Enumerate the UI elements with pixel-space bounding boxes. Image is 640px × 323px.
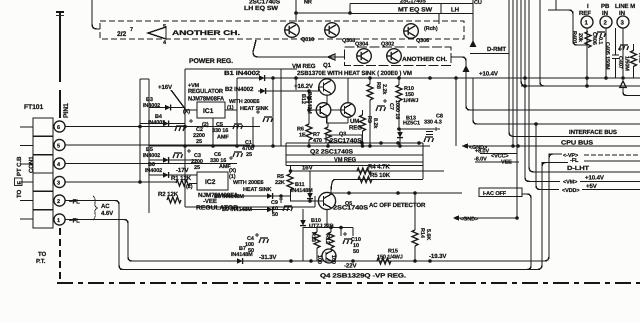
wire C1 column	[252, 117, 254, 146]
svg-text:LH: LH	[451, 7, 459, 14]
wire R5 rail	[331, 180, 423, 194]
resistor R10	[396, 85, 402, 101]
pin 4	[54, 158, 65, 169]
svg-text:MT EQ SW: MT EQ SW	[398, 7, 432, 14]
svg-text:I: I	[587, 3, 589, 10]
svg-text:Q4 2SB1329Q -VP REG.: Q4 2SB1329Q -VP REG.	[320, 273, 407, 280]
svg-text:5.6K: 5.6K	[425, 229, 431, 240]
svg-text:3: 3	[57, 181, 60, 187]
wire pin3 down	[622, 28, 624, 78]
svg-text:3: 3	[621, 20, 625, 27]
ground C4	[259, 238, 269, 243]
svg-text:5: 5	[57, 144, 60, 150]
ground C9	[283, 206, 293, 211]
svg-text:+16V: +16V	[158, 84, 173, 91]
svg-text:C407: C407	[617, 56, 623, 69]
svg-text:B2 IN4002: B2 IN4002	[225, 86, 254, 93]
wire: vertical into dashed another-ch box	[92, 0, 100, 29]
svg-text:-19.3V: -19.3V	[429, 253, 447, 260]
svg-text:HEAT SINK: HEAT SINK	[243, 187, 271, 193]
svg-text:Q2 2SC1740S: Q2 2SC1740S	[310, 149, 353, 156]
svg-text:1E: 1E	[299, 133, 306, 139]
svg-text:+10.4V: +10.4V	[585, 175, 605, 182]
resistor R5b 22K	[287, 174, 293, 190]
svg-text:2.2k: 2.2k	[381, 84, 387, 95]
ground C5	[233, 124, 243, 129]
solid box ANOTHER CH (lower)	[345, 47, 452, 66]
svg-text:TO: TO	[38, 251, 47, 258]
wire VDD rail right	[582, 189, 640, 191]
svg-text:R4 4.7K: R4 4.7K	[368, 164, 390, 171]
svg-text:1/50M: 1/50M	[624, 56, 630, 71]
svg-text:R14: R14	[419, 228, 425, 239]
wire x281 vertical	[280, 69, 282, 146]
svg-text:Q1: Q1	[323, 62, 332, 69]
wire -VP riser from bottom rail	[130, 154, 562, 261]
wire GND2	[459, 217, 517, 219]
svg-text:R9: R9	[366, 116, 372, 123]
transistor Q5	[318, 192, 335, 209]
ground C3	[173, 153, 183, 158]
svg-text:HZ5C1: HZ5C1	[403, 121, 420, 127]
svg-text:4.6V: 4.6V	[101, 210, 114, 217]
resistor R6	[306, 124, 312, 140]
svg-text:C405 150M: C405 150M	[604, 42, 610, 70]
wire VM rail right	[580, 181, 640, 183]
wire pin5 line	[65, 144, 250, 146]
capacitor C405	[612, 54, 619, 56]
resistor R14	[412, 230, 418, 246]
transistor Q1	[319, 79, 335, 95]
svg-text:AC OFF DETECTOR: AC OFF DETECTOR	[369, 202, 426, 209]
connector stubs left	[20, 127, 33, 219]
svg-text:Q306: Q306	[416, 38, 429, 44]
transistor Q306	[404, 24, 419, 39]
transistor Q3b pair	[341, 103, 356, 118]
svg-text:1/4WJ: 1/4WJ	[403, 98, 418, 104]
svg-text:B8 IN4148M: B8 IN4148M	[214, 194, 244, 200]
capacitor C1	[256, 110, 260, 114]
svg-text:FT101: FT101	[24, 104, 43, 111]
svg-text:IC2: IC2	[205, 179, 216, 186]
transistor Q302	[387, 49, 402, 64]
pin 3	[54, 176, 65, 187]
svg-text:20k: 20k	[577, 33, 583, 43]
wire 16V rail R4	[291, 170, 445, 172]
svg-text:4: 4	[57, 162, 61, 168]
ground C1	[263, 117, 273, 122]
ground C2	[175, 126, 185, 131]
label GND 2	[453, 215, 459, 221]
svg-text:150 1/4WJ: 150 1/4WJ	[377, 255, 403, 261]
svg-text:R13: R13	[310, 232, 316, 242]
bus vertical x517 down to GND2 wire	[516, 0, 518, 218]
capacitor C10	[343, 239, 353, 244]
wire center verticals	[237, 78, 296, 146]
IC1 regulator	[197, 102, 225, 118]
svg-text:22K: 22K	[275, 180, 285, 186]
boxed row 2SC1740S small	[326, 135, 362, 143]
wire x473 feed to y124	[473, 78, 640, 124]
svg-text:+10.4V: +10.4V	[479, 71, 499, 78]
svg-text:-31.3V: -31.3V	[259, 254, 277, 261]
transistor Q4	[322, 249, 336, 263]
svg-text:<VDD>: <VDD>	[562, 188, 580, 194]
wire Q3b collector up to rail	[347, 78, 349, 103]
arrow up on MT box feed	[470, 40, 477, 47]
bus vertical x521	[521, 0, 640, 86]
svg-text:B12: B12	[300, 94, 306, 104]
wire VEE net	[475, 161, 519, 163]
svg-text:2/2: 2/2	[117, 31, 126, 38]
svg-text:1: 1	[585, 20, 589, 27]
dashed box ANOTHER CH (upper)	[100, 21, 464, 39]
wire: top stub tick	[56, 11, 64, 13]
wire verticals detector	[303, 209, 353, 261]
wire pin2 down	[605, 28, 607, 78]
capacitor C3	[187, 149, 191, 153]
svg-text:POWER REG.: POWER REG.	[189, 58, 233, 65]
svg-text:AC: AC	[101, 203, 110, 210]
svg-text:2SB1370E WITH HEAT SINK ( 200: 2SB1370E WITH HEAT SINK ( 200E0 ) VM	[297, 70, 412, 77]
wire: y13 to MT EQ SW box	[296, 12, 350, 14]
svg-text:PIN1: PIN1	[63, 103, 70, 118]
pin 2	[54, 195, 65, 206]
power reg box top	[185, 68, 297, 70]
svg-text:R401: R401	[571, 31, 577, 44]
svg-text:330 4.3: 330 4.3	[424, 120, 442, 126]
wire feed from top	[555, 0, 557, 10]
svg-text:2: 2	[57, 199, 60, 205]
resistor R401	[585, 32, 591, 48]
brace AC 4.6V	[93, 196, 98, 220]
wire pin1 down	[586, 28, 588, 86]
svg-text:REG: REG	[349, 125, 362, 132]
wire pin2 FL	[65, 200, 115, 202]
wire Q3 pair emitters	[327, 117, 348, 128]
wire Q1 emitter down to Q3	[326, 95, 328, 104]
svg-text:Q302: Q302	[381, 42, 394, 48]
arrow up at x620	[620, 81, 626, 88]
svg-text:25: 25	[196, 139, 202, 145]
resistor R12	[328, 232, 334, 248]
resistor R7	[325, 127, 331, 143]
svg-text:+16.2V: +16.2V	[294, 83, 314, 90]
wire -FL riser from bottom rail	[120, 163, 568, 270]
svg-text:8.2k: 8.2k	[372, 118, 378, 129]
wire from VM arrow down and right y110	[466, 78, 640, 110]
box I-AC OFF	[479, 188, 522, 197]
pin 5	[54, 139, 65, 150]
capacitor C2	[189, 119, 193, 123]
bus vertical x525	[525, 0, 560, 182]
wire: Q310 collector to top	[295, 0, 297, 22]
wire dash-dot bottom rail	[57, 282, 640, 284]
svg-text:2SC1740S: 2SC1740S	[333, 205, 368, 212]
svg-text:I-AC OFF: I-AC OFF	[483, 191, 507, 197]
svg-text:P.T.: P.T.	[36, 258, 46, 265]
svg-text:(Rch): (Rch)	[424, 26, 438, 32]
wire dashed below connector	[59, 228, 61, 281]
svg-text:2: 2	[604, 20, 608, 27]
wire diagonal into IC1	[171, 90, 197, 110]
svg-text:NR: NR	[304, 0, 312, 6]
wire rail y86	[521, 85, 640, 87]
svg-text:LH EQ SW: LH EQ SW	[244, 5, 278, 12]
bus vertical x509 to INTERFACE BUS	[509, 0, 640, 137]
wire y90 rail	[281, 90, 319, 92]
resistor R9	[360, 115, 366, 131]
wire: Q306 to MT box	[438, 14, 440, 25]
ground C8	[424, 137, 434, 142]
wire pin3 line	[65, 181, 176, 183]
wire GND net	[462, 145, 640, 147]
svg-text:25: 25	[194, 165, 200, 171]
svg-text:1: 1	[57, 218, 60, 224]
wire y227	[303, 227, 353, 229]
op-amp triangle (another channel)	[148, 27, 166, 39]
wire Q5 base rail	[290, 200, 318, 202]
wire pin2 down to VCC return	[115, 201, 123, 270]
svg-text:WITH 200E6: WITH 200E6	[229, 99, 260, 105]
svg-text:D-LHT: D-LHT	[567, 165, 589, 172]
svg-text:25: 25	[246, 152, 252, 158]
svg-text:Q308: Q308	[342, 38, 355, 44]
svg-text:R5 10K: R5 10K	[370, 172, 391, 179]
svg-text:B1 IN4002: B1 IN4002	[224, 70, 261, 77]
svg-text:0.1: 0.1	[597, 37, 603, 44]
svg-text:IN4002: IN4002	[145, 168, 162, 174]
wire y193	[331, 192, 462, 194]
wire y129	[397, 128, 440, 130]
svg-text:C7: C7	[388, 103, 394, 110]
MT EQ SW box	[350, 0, 473, 47]
svg-text:INTERFACE BUS: INTERFACE BUS	[569, 129, 617, 136]
svg-text:6: 6	[57, 125, 60, 131]
resistor R8	[367, 84, 373, 100]
transistor Q308	[325, 23, 340, 38]
wire corner from top bundle to pin1 leg	[548, 10, 588, 45]
power reg box left	[185, 69, 315, 207]
svg-text:(X): (X)	[229, 168, 236, 174]
svg-text:TO: TO	[16, 189, 23, 198]
wire D-RMT	[470, 53, 509, 55]
svg-text:IN4002: IN4002	[143, 153, 160, 159]
svg-text:PT C.B: PT C.B	[16, 156, 23, 176]
wire: thick vertical bus at far left top	[59, 12, 61, 118]
svg-text:2SC1740S: 2SC1740S	[400, 0, 426, 5]
bus vertical x513 to GND junction	[512, 0, 514, 146]
svg-text:HEAT SINK: HEAT SINK	[240, 106, 268, 112]
capacitor C7	[376, 106, 386, 111]
svg-text:ANOTHER CH.: ANOTHER CH.	[402, 56, 447, 63]
connector FT101 body	[33, 118, 53, 228]
wire long bus y146	[149, 145, 430, 147]
wire -VP dashed	[584, 154, 640, 156]
svg-text:R8: R8	[375, 82, 381, 89]
svg-text:CU: CU	[474, 0, 482, 6]
svg-text:REGULATOR: REGULATOR	[188, 88, 224, 95]
ground C6	[233, 152, 243, 157]
ground near pin2	[596, 32, 606, 37]
svg-text:50: 50	[272, 212, 278, 218]
svg-text:4: 4	[163, 40, 167, 46]
svg-text:IC1: IC1	[203, 108, 214, 115]
svg-text:D-RMT: D-RMT	[487, 46, 506, 53]
svg-text:50: 50	[353, 249, 359, 255]
wire pin1 FL	[65, 219, 124, 221]
svg-text:Q310: Q310	[301, 37, 314, 43]
wire pin6 line	[65, 126, 260, 128]
wire -FL	[584, 160, 640, 162]
wire pin1 down to GND return	[124, 220, 132, 262]
wire VCC net	[480, 153, 517, 155]
svg-text:AMF: AMF	[217, 135, 229, 141]
svg-text:(2): (2)	[202, 122, 209, 128]
transistor Q3	[316, 103, 331, 118]
svg-text:Q304: Q304	[355, 42, 369, 48]
svg-text:WITH 200E6: WITH 200E6	[233, 180, 264, 186]
svg-text:PB: PB	[601, 3, 610, 10]
IC2 regulator	[197, 172, 228, 190]
wire pin4 line	[65, 163, 237, 165]
resistor right edge	[631, 51, 637, 67]
svg-text:R12: R12	[324, 234, 330, 244]
svg-text:IN4148M: IN4148M	[231, 252, 253, 258]
transistor Q310	[285, 23, 300, 38]
svg-text:~FL: ~FL	[69, 199, 80, 206]
wire Q3 base tie	[309, 109, 341, 111]
bus vertical x540	[540, 0, 544, 86]
pin 1	[54, 214, 65, 225]
svg-text:C406: C406	[591, 32, 597, 45]
wire: from dashed box down to lower box with left arrow	[253, 40, 345, 57]
bus vertical x529 to D-LHT	[529, 0, 640, 172]
wire from another ch box to +10.4V rail	[451, 57, 466, 78]
wire left verticals	[139, 79, 141, 182]
pin 6	[54, 121, 65, 132]
svg-text:ANOTHER CH.: ANOTHER CH.	[172, 30, 240, 37]
svg-text:-17V: -17V	[176, 167, 190, 174]
svg-text:-22V: -22V	[344, 263, 358, 270]
arrow up into +10.4V rail	[463, 65, 470, 72]
svg-text:5: 5	[163, 24, 166, 30]
resistor R13	[314, 232, 320, 248]
svg-text:~FL: ~FL	[69, 218, 80, 225]
transistor Q304	[357, 49, 372, 64]
svg-text:-FL: -FL	[570, 158, 579, 164]
svg-text:7: 7	[130, 27, 133, 33]
svg-text:VM REG: VM REG	[334, 157, 356, 164]
wire I-AC OFF right	[522, 194, 531, 270]
svg-text:LINE M: LINE M	[615, 3, 635, 10]
box rows Q2 VM REG	[286, 143, 423, 179]
svg-text:<VM>: <VM>	[563, 180, 577, 186]
svg-text:330 16: 330 16	[212, 128, 228, 134]
